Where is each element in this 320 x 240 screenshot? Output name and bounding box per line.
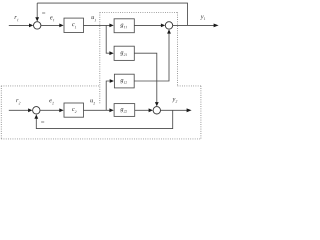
wire: S3 to C2 (40, 109, 60, 111)
label g21 (120, 51, 126, 56)
wire: u1 branch down to G21 (106, 25, 110, 53)
label y1 (200, 16, 205, 20)
label r2 (16, 99, 20, 104)
label minus top loop (42, 12, 45, 14)
label g11 (120, 24, 126, 29)
wire: S4 to y2 output (161, 109, 188, 111)
label e2 (49, 99, 53, 104)
dashed box: closed-loop 2 boundary (1, 86, 201, 139)
plant block G21 (114, 46, 134, 60)
controller block C1 (64, 18, 84, 32)
wire: C1 to node u1 to G11 (84, 24, 110, 26)
wire: G22 to S4 (135, 109, 149, 111)
label e1 (50, 16, 54, 21)
wire: y1 feedback tap up and across (37, 3, 187, 25)
wire: r2 input (9, 109, 29, 111)
label y2 (172, 98, 177, 102)
summing junction S1 (34, 22, 41, 29)
summing junction S4 (153, 107, 160, 114)
wire: C2 to node u2 to G22 (84, 109, 110, 111)
plant block G12 (114, 74, 134, 88)
label r1 (15, 16, 19, 21)
wire: S1 to C1 (41, 24, 60, 26)
summing junction S3 (33, 107, 40, 114)
label u1 (92, 16, 96, 21)
wire: y1 feedback down into S1 (36, 3, 38, 18)
controller block C2 (64, 103, 84, 117)
label g12 (120, 79, 127, 84)
wire: G21 output down to S4 (134, 53, 157, 103)
wire: y2 feedback tap down across and up into S3 (36, 110, 172, 128)
label c2 (72, 108, 76, 113)
wire: r1 input (9, 24, 30, 26)
label c1 (72, 23, 76, 28)
label g22 (120, 108, 127, 113)
wire: S2 to y1 output (173, 24, 215, 26)
label minus bottom loop (41, 121, 44, 123)
plant block G11 (114, 19, 134, 33)
summing junction S2 (165, 22, 172, 29)
plant block G22 (114, 104, 135, 117)
dotted box: plant G boundary (100, 12, 178, 104)
wire: G12 output up to S2 (134, 33, 169, 81)
wire: u2 branch up to G12 (106, 81, 110, 110)
label u2 (90, 99, 95, 104)
wire: G11 to S2 (134, 24, 161, 26)
